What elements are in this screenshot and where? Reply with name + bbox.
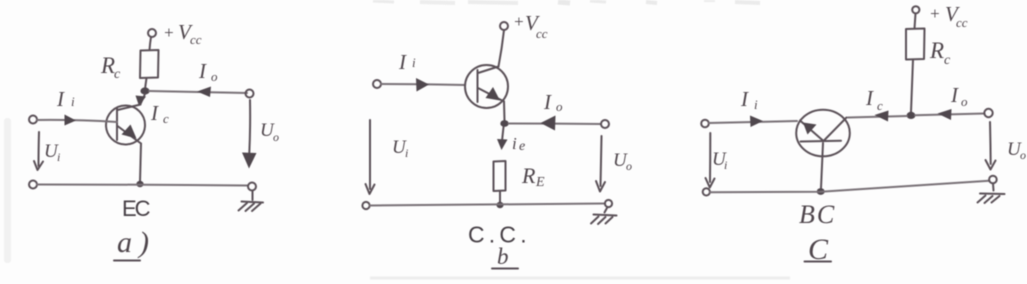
svg-text:+: + xyxy=(929,4,940,23)
scan artifacts: left band and bottom smudge xyxy=(4,118,790,278)
voltage arrow Ui (b) xyxy=(366,120,375,194)
svg-text:a): a) xyxy=(117,226,156,259)
svg-text:+: + xyxy=(513,12,524,31)
emitter arrow of Q1 (a) xyxy=(122,125,137,139)
label Io (a) xyxy=(198,59,218,84)
svg-text:R: R xyxy=(100,53,115,78)
terminal bottom-left (b) xyxy=(362,202,369,209)
svg-text:cc: cc xyxy=(190,32,202,47)
wire junction to transistor (c) xyxy=(848,116,907,118)
svg-text:I: I xyxy=(865,86,874,110)
ground (a) xyxy=(239,191,264,212)
node emitter bottom (a) xyxy=(136,181,143,187)
label +Vcc (b) xyxy=(513,11,548,41)
svg-text:o: o xyxy=(273,130,279,144)
svg-text:EC: EC xyxy=(122,196,151,221)
current arrow Io (b) xyxy=(541,116,556,131)
wire junction to output terminal (c) xyxy=(915,114,985,116)
label Ic (c) xyxy=(865,86,883,113)
svg-text:i: i xyxy=(405,146,408,160)
svg-text:+: + xyxy=(163,23,174,42)
label Uo (b) xyxy=(613,150,632,173)
node emitter junction (b) xyxy=(500,120,508,127)
wire input to base (b) xyxy=(381,84,465,85)
svg-text:cc: cc xyxy=(956,15,968,30)
svg-text:i: i xyxy=(724,158,727,172)
label Rc (c) xyxy=(929,38,951,68)
svg-text:I: I xyxy=(398,50,407,74)
label Io (b) xyxy=(543,90,563,114)
terminal input (c) xyxy=(701,120,709,128)
label Rc (a) xyxy=(100,53,121,82)
svg-text:I: I xyxy=(56,87,65,111)
terminal input (b) xyxy=(373,80,381,88)
current arrow Ii (c) xyxy=(750,116,763,128)
terminal output (c) xyxy=(984,109,992,117)
current arrow Ii (b) xyxy=(416,78,429,92)
node RE bottom (b) xyxy=(496,202,503,208)
transistor Q1 (a) xyxy=(106,105,145,145)
emitter arrow of Q3 (c) xyxy=(803,123,817,135)
svg-text:R: R xyxy=(521,163,536,188)
svg-text:R: R xyxy=(929,38,944,63)
resistor Rc (a) xyxy=(140,50,159,78)
current arrow ie (b) xyxy=(497,127,508,150)
svg-text:o: o xyxy=(961,94,968,109)
svg-text:BC: BC xyxy=(799,200,836,229)
svg-text:c: c xyxy=(114,67,121,82)
wire collector lead (a) xyxy=(141,94,146,104)
terminal +Vcc (a) xyxy=(148,29,156,37)
label Uo (c) xyxy=(1007,139,1026,162)
wire emitter to junction (b) xyxy=(503,102,506,122)
wire Vcc to Rc (a) xyxy=(150,37,152,50)
transistor Q2 (b) xyxy=(465,65,508,108)
label Ui (b) xyxy=(392,137,408,160)
label BC xyxy=(799,200,836,229)
ground (c) xyxy=(978,184,1005,204)
current arrow Io (a) xyxy=(197,87,211,98)
label C.C. xyxy=(468,222,531,248)
current arrow Ic (a) xyxy=(136,96,147,107)
wire Rc to junction (c) xyxy=(911,60,913,113)
current arrow Ii (a) xyxy=(65,115,77,126)
wire junction to output terminal (a) xyxy=(149,91,247,93)
resistor RE (b) xyxy=(494,161,506,191)
svg-text:i: i xyxy=(412,55,416,70)
voltage arrow Uo (c) xyxy=(986,122,996,170)
svg-text:i: i xyxy=(57,150,60,164)
terminal output (b) xyxy=(601,120,609,128)
wire Vcc to Rc (c) xyxy=(915,14,916,29)
svg-text:i: i xyxy=(754,97,758,112)
label RE (b) xyxy=(521,163,545,190)
wire input to base (a) xyxy=(37,120,117,122)
terminal +Vcc (c) xyxy=(912,6,919,13)
label EC xyxy=(122,196,151,221)
svg-text:o: o xyxy=(556,99,563,114)
transistor Q3 (c) xyxy=(796,110,850,157)
svg-text:I: I xyxy=(543,90,552,114)
svg-text:i: i xyxy=(71,94,75,109)
terminal bottom-left (a) xyxy=(29,181,37,189)
svg-text:b: b xyxy=(497,244,509,269)
wire RE to bottom node (b) xyxy=(499,191,501,203)
resistor Rc (c) xyxy=(906,29,925,60)
label Ic (a) xyxy=(150,101,169,126)
wire emitter to bottom node (a) xyxy=(140,144,141,183)
terminal bottom-right (c) xyxy=(989,176,997,184)
terminal bottom-left (c) xyxy=(703,188,710,195)
label Uo (a) xyxy=(260,120,279,144)
current arrow Ic (c) xyxy=(875,111,889,122)
label Ii (a) xyxy=(56,87,75,111)
wire junction to output terminal (b) xyxy=(509,123,602,126)
scan artifacts: top edge dashes xyxy=(373,1,760,3)
svg-text:c: c xyxy=(163,111,169,126)
label Ii (c) xyxy=(740,87,758,112)
svg-text:c: c xyxy=(877,98,883,113)
label ie (b) xyxy=(512,134,525,154)
label a) xyxy=(114,226,156,261)
svg-text:e: e xyxy=(519,139,525,154)
node base bottom (c) xyxy=(817,188,825,195)
svg-text:i: i xyxy=(512,134,517,153)
emitter arrow of Q2 (b) xyxy=(486,87,501,101)
terminal input (a) xyxy=(29,116,37,124)
ground (b) xyxy=(591,207,617,224)
node collector junction (c) xyxy=(907,112,916,119)
label Ii (b) xyxy=(398,50,416,74)
svg-text:o: o xyxy=(626,159,632,173)
svg-text:c: c xyxy=(944,53,951,68)
label +Vcc (a) xyxy=(163,20,202,47)
label Io (c) xyxy=(950,83,968,109)
wire bottom (c) xyxy=(710,181,989,192)
label b) xyxy=(492,244,518,269)
wire bottom (b) xyxy=(370,204,606,206)
svg-text:I: I xyxy=(950,83,959,107)
terminal bottom-right (a) xyxy=(248,183,256,191)
svg-text:o: o xyxy=(1020,148,1026,162)
wire base to bottom node (c) xyxy=(821,143,823,188)
voltage arrow Ui (a) xyxy=(34,132,43,170)
svg-text:I: I xyxy=(150,101,159,125)
voltage arrow Uo (b) xyxy=(596,136,605,192)
wire input to emitter (c) xyxy=(709,121,797,123)
terminal +Vcc (b) xyxy=(500,22,508,30)
wire Rc to junction (a) xyxy=(145,78,147,89)
voltage arrow Uo (a) xyxy=(242,100,257,169)
svg-text:E: E xyxy=(535,175,545,190)
wire collector to Vcc (b) xyxy=(499,30,505,67)
node collector junction (a) xyxy=(140,87,149,94)
svg-text:cc: cc xyxy=(536,26,548,41)
svg-text:I: I xyxy=(740,87,749,111)
svg-text:I: I xyxy=(198,59,207,83)
label Ui (a) xyxy=(44,141,60,164)
voltage arrow Ui (c) xyxy=(706,133,715,188)
terminal bottom-right (b) xyxy=(605,200,612,207)
wire bottom (a) xyxy=(37,185,248,186)
label Ui (c) xyxy=(712,149,727,172)
terminal output (a) xyxy=(246,90,254,98)
svg-text:o: o xyxy=(211,69,218,84)
label C xyxy=(805,233,832,266)
label +Vcc (c) xyxy=(929,2,968,30)
current arrow Io (c) xyxy=(938,109,952,120)
